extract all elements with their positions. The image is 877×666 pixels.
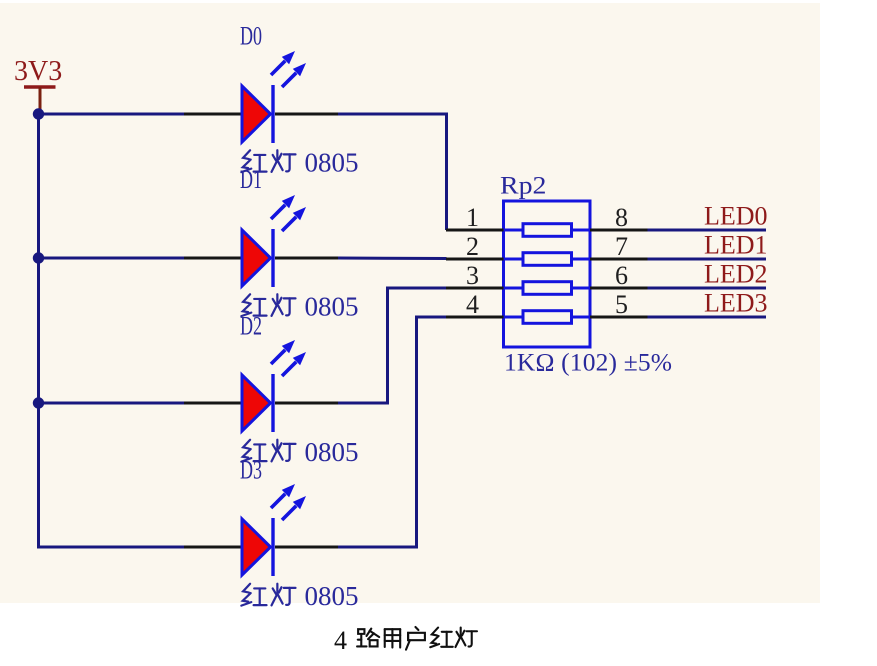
- pin 1: [446, 229, 504, 232]
- svg-text:Rp2: Rp2: [500, 173, 547, 200]
- pin 3: [446, 287, 504, 290]
- svg-text:LED3: LED3: [704, 289, 768, 318]
- svg-text:8: 8: [615, 203, 628, 232]
- resistor element R3 inside pack: [504, 287, 524, 290]
- power port stem: [39, 87, 42, 112]
- wire: net LED2: [648, 287, 767, 290]
- pin 8: [590, 229, 648, 232]
- svg-text:D1: D1: [240, 165, 262, 194]
- pin 6: [590, 287, 648, 290]
- svg-text:0805: 0805: [305, 581, 359, 611]
- junction node D1 row: [33, 252, 44, 263]
- resistor element R4 inside pack: [504, 316, 524, 319]
- svg-text:3V3: 3V3: [14, 56, 62, 87]
- wire: rail to D3: [39, 546, 186, 548]
- wire: rail to D1: [39, 257, 186, 260]
- svg-text:6: 6: [615, 261, 628, 290]
- wire: net LED0: [648, 229, 767, 232]
- pin 2: [446, 258, 504, 261]
- label D0: hong deng 0805: [241, 150, 295, 172]
- LED D2: [184, 340, 338, 432]
- svg-text:LED2: LED2: [704, 260, 768, 289]
- svg-text:0805: 0805: [305, 437, 359, 467]
- svg-text:4: 4: [466, 290, 479, 319]
- pin 4: [446, 316, 504, 319]
- label D2: hong deng 0805: [241, 440, 295, 462]
- junction node D2 row: [33, 397, 44, 408]
- LED D3: [184, 484, 338, 576]
- svg-text:LED1: LED1: [704, 231, 768, 260]
- svg-text:1KΩ (102) ±5%: 1KΩ (102) ±5%: [504, 348, 672, 377]
- resistor element R1 inside pack: [504, 229, 524, 232]
- junction node D0 row: [33, 108, 44, 119]
- label D1: hong deng 0805: [241, 294, 295, 316]
- pin 7: [590, 258, 648, 261]
- svg-text:5: 5: [615, 290, 628, 319]
- svg-text:LED0: LED0: [704, 202, 768, 231]
- svg-text:4: 4: [334, 626, 347, 655]
- LED D0: [184, 51, 338, 143]
- svg-text:1: 1: [466, 203, 479, 232]
- wire: D2 to pin3 (right then up): [338, 288, 447, 403]
- pin 5: [590, 316, 648, 319]
- resistor network Rp2 body: [504, 201, 591, 347]
- svg-text:0805: 0805: [305, 292, 359, 322]
- wire: D0 to pin1 (right then down): [338, 114, 447, 230]
- power port 3V3 bar symbol: [24, 85, 56, 88]
- wire: rail to D0: [39, 113, 186, 116]
- wire: net LED3: [648, 316, 767, 319]
- svg-text:7: 7: [615, 232, 628, 261]
- wire: net LED1: [648, 258, 767, 261]
- LED D1: [184, 195, 338, 287]
- wire: rail to D2: [39, 402, 186, 405]
- wire: left vertical rail: [37, 114, 40, 547]
- svg-text:D0: D0: [240, 22, 262, 51]
- label D3: hong deng 0805: [241, 584, 295, 606]
- wire: D3 to pin4 (right then up): [338, 317, 447, 547]
- svg-text:3: 3: [466, 261, 479, 290]
- wire: D1 to pin2: [338, 257, 447, 261]
- svg-text:D3: D3: [240, 456, 262, 485]
- resistor element R2 inside pack: [504, 258, 524, 261]
- svg-text:2: 2: [466, 232, 479, 261]
- svg-text:D2: D2: [240, 312, 262, 341]
- svg-text:0805: 0805: [305, 148, 359, 178]
